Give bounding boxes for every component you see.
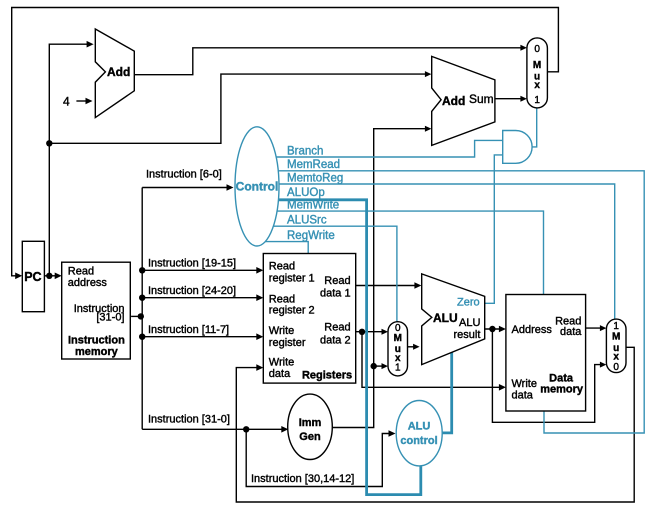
wire PC to instruction memory read address xyxy=(44,275,57,277)
alu control unit xyxy=(396,401,442,466)
wire AND gate output to mux4 select xyxy=(532,108,537,147)
node instruction 11-7 tap xyxy=(139,334,145,340)
wire PC value to branch adder top input xyxy=(49,74,427,143)
svg-text:[31-0]: [31-0] xyxy=(96,311,124,323)
svg-text:ALUOp: ALUOp xyxy=(287,187,325,199)
arrow into Add top input xyxy=(87,41,94,48)
svg-text:0: 0 xyxy=(613,362,619,373)
svg-text:Read: Read xyxy=(68,266,94,278)
arrow into PC xyxy=(15,273,22,280)
data memory xyxy=(506,295,586,412)
wire instruction 24-20 to read register 2 xyxy=(142,297,259,299)
arrow into mux2 input 0 xyxy=(600,362,607,368)
arrow into mux3 input 0 xyxy=(382,329,389,335)
wire imm gen output riser to branch adder and mux3 xyxy=(332,129,427,428)
wire instruction vertical bus xyxy=(141,188,143,430)
svg-text:Instruction [11-7]: Instruction [11-7] xyxy=(148,324,229,336)
wire instruction 6-0 to control xyxy=(142,187,229,189)
svg-text:Registers: Registers xyxy=(302,369,352,381)
wire write-back from mux2 output to registers write data xyxy=(236,347,634,502)
svg-text:Branch: Branch xyxy=(287,146,323,158)
svg-text:M: M xyxy=(533,60,541,71)
arrow into mux2 input 1 xyxy=(600,325,607,331)
svg-text:MemtoReg: MemtoReg xyxy=(287,173,343,185)
wire alu control output to ALU xyxy=(441,352,452,433)
svg-text:data 1: data 1 xyxy=(320,288,351,300)
svg-text:Write: Write xyxy=(269,357,294,369)
wire ALUSrc control signal to mux3 select xyxy=(273,226,397,322)
adder Add Sum (branch target) xyxy=(432,56,495,145)
arrow into data memory write data xyxy=(499,384,506,391)
svg-text:Gen: Gen xyxy=(299,431,321,443)
wire ALU result to data memory address xyxy=(485,328,502,330)
svg-text:MemRead: MemRead xyxy=(287,159,340,171)
svg-text:Zero: Zero xyxy=(457,297,480,309)
svg-text:memory: memory xyxy=(75,346,119,358)
node imm gen input branch xyxy=(243,426,249,432)
node ALU result branch xyxy=(489,326,495,332)
wire ALU result bypass to mux2 input 0 xyxy=(492,329,603,422)
ALU xyxy=(422,274,485,365)
svg-text:ALUSrc: ALUSrc xyxy=(287,215,327,227)
svg-text:Instruction: Instruction xyxy=(68,334,125,346)
wire Zero flag to AND gate input xyxy=(485,155,502,303)
wire Branch control signal to AND gate xyxy=(277,140,503,157)
arrow into write register xyxy=(256,333,263,340)
wire read data 2 branch to data memory write data xyxy=(362,332,502,388)
svg-text:RegWrite: RegWrite xyxy=(287,230,335,242)
wire constant 4 into Add xyxy=(76,100,88,102)
svg-text:0: 0 xyxy=(534,44,540,55)
wire MemtoReg control signal to mux2 select xyxy=(279,184,615,319)
svg-text:Imm: Imm xyxy=(299,417,322,429)
wire instruction 31-0 to imm gen xyxy=(142,428,284,430)
arrow into control xyxy=(227,184,234,191)
svg-text:1: 1 xyxy=(534,95,540,106)
arrow into read address xyxy=(55,273,62,280)
svg-text:ALU: ALU xyxy=(408,421,431,433)
svg-text:result: result xyxy=(454,329,481,341)
wire MemWrite control signal to data memory top xyxy=(276,211,543,294)
svg-text:data 2: data 2 xyxy=(320,334,351,346)
arrow into imm gen xyxy=(281,426,288,433)
svg-text:ALU: ALU xyxy=(433,311,458,325)
svg-text:PC: PC xyxy=(24,270,41,284)
arrow into mux4 input 0 xyxy=(520,45,527,51)
wire mux3 output to ALU xyxy=(408,346,415,348)
PC register xyxy=(22,241,44,311)
svg-text:control: control xyxy=(400,435,437,447)
registers file xyxy=(263,254,355,384)
svg-text:Write: Write xyxy=(512,378,537,390)
svg-text:Add: Add xyxy=(107,65,130,79)
imm gen unit xyxy=(288,394,333,459)
wire instruction 19-15 to read register 1 xyxy=(142,269,259,271)
mux2 MemtoReg multiplexer xyxy=(606,319,626,373)
svg-text:memory: memory xyxy=(540,383,584,395)
mux4 pc source multiplexer xyxy=(527,38,548,108)
svg-text:M: M xyxy=(394,333,402,344)
node instruction 24-20 tap xyxy=(139,295,145,301)
svg-text:Read: Read xyxy=(324,321,350,333)
wire instruction memory output xyxy=(131,315,142,317)
adder Add (PC+4) xyxy=(95,29,134,118)
arrow into mux3 input 1 xyxy=(382,363,389,369)
svg-text:MemWrite: MemWrite xyxy=(287,200,339,212)
svg-text:register 1: register 1 xyxy=(269,273,315,285)
svg-text:Read: Read xyxy=(324,275,350,287)
wire Add output to mux4 input 0 xyxy=(134,48,523,75)
node PC output junction xyxy=(46,273,52,279)
AND gate xyxy=(503,131,532,164)
arrow of constant 4 into Add xyxy=(86,98,93,105)
svg-text:ALU: ALU xyxy=(459,317,480,329)
arrow into branch adder bottom input xyxy=(425,126,432,132)
wire pc-feedback loop from mux4 output to PC input xyxy=(12,8,559,276)
arrow into read register 2 xyxy=(256,294,263,301)
svg-text:Read: Read xyxy=(269,261,295,273)
wire RegWrite control signal to registers xyxy=(264,242,308,254)
wire read data 2 to mux3 input 0 xyxy=(356,331,385,333)
svg-text:Control: Control xyxy=(236,180,279,194)
svg-text:Instruction [24-20]: Instruction [24-20] xyxy=(148,285,236,297)
mux3 ALUSrc multiplexer xyxy=(388,322,408,376)
svg-text:Read: Read xyxy=(269,293,295,305)
svg-text:Address: Address xyxy=(512,324,553,336)
wire Sum output to mux4 input 1 xyxy=(495,98,524,100)
svg-text:Instruction [30,14-12]: Instruction [30,14-12] xyxy=(251,473,354,485)
instruction memory xyxy=(62,262,131,359)
node instruction memory output junction xyxy=(138,313,144,319)
wire instruction 11-7 to write register xyxy=(142,336,259,338)
wire instruction 30,14-12 to alu control xyxy=(246,429,391,486)
arrow into branch adder top input xyxy=(425,71,432,77)
arrow into ALU top input xyxy=(414,282,421,289)
wire data memory read data to mux2 input 1 xyxy=(586,327,603,329)
arrow into mux4 input 1 xyxy=(520,96,527,102)
svg-text:Instruction [6-0]: Instruction [6-0] xyxy=(146,169,222,181)
arrow into data memory address xyxy=(499,326,506,333)
arrow into ALU bottom input xyxy=(413,344,420,350)
svg-text:Instruction [31-0]: Instruction [31-0] xyxy=(148,413,230,425)
wire read data 1 to ALU xyxy=(356,285,418,287)
svg-text:address: address xyxy=(68,277,108,289)
wire PC riser to Add xyxy=(49,44,89,276)
svg-text:data: data xyxy=(269,368,291,380)
svg-text:1: 1 xyxy=(395,362,401,373)
svg-text:Sum: Sum xyxy=(469,92,494,106)
arrow into alu control xyxy=(389,430,396,437)
svg-text:Add: Add xyxy=(442,94,465,108)
svg-text:register 2: register 2 xyxy=(269,305,315,317)
node instruction 19-15 tap xyxy=(139,267,145,273)
svg-text:register: register xyxy=(269,337,306,349)
svg-text:4: 4 xyxy=(63,95,70,109)
svg-text:Instruction [19-15]: Instruction [19-15] xyxy=(148,258,236,270)
wire imm riser branch to mux3 input 1 xyxy=(374,365,385,367)
svg-text:x: x xyxy=(534,80,540,91)
svg-text:Write: Write xyxy=(269,325,294,337)
svg-text:M: M xyxy=(612,331,620,342)
wire MemRead control signal to data memory bottom xyxy=(278,171,644,433)
wire ALUOp control bus to alu control unit xyxy=(278,200,421,495)
svg-text:data: data xyxy=(560,326,582,338)
arrow into registers write data xyxy=(256,364,263,371)
node PC line branch to adders xyxy=(46,140,52,146)
control unit xyxy=(235,127,279,246)
arrow into read register 1 xyxy=(256,267,263,274)
svg-text:data: data xyxy=(512,389,534,401)
node read data 2 branch xyxy=(359,329,365,335)
node imm riser branch to mux3 xyxy=(371,363,377,369)
svg-text:1: 1 xyxy=(613,321,619,332)
